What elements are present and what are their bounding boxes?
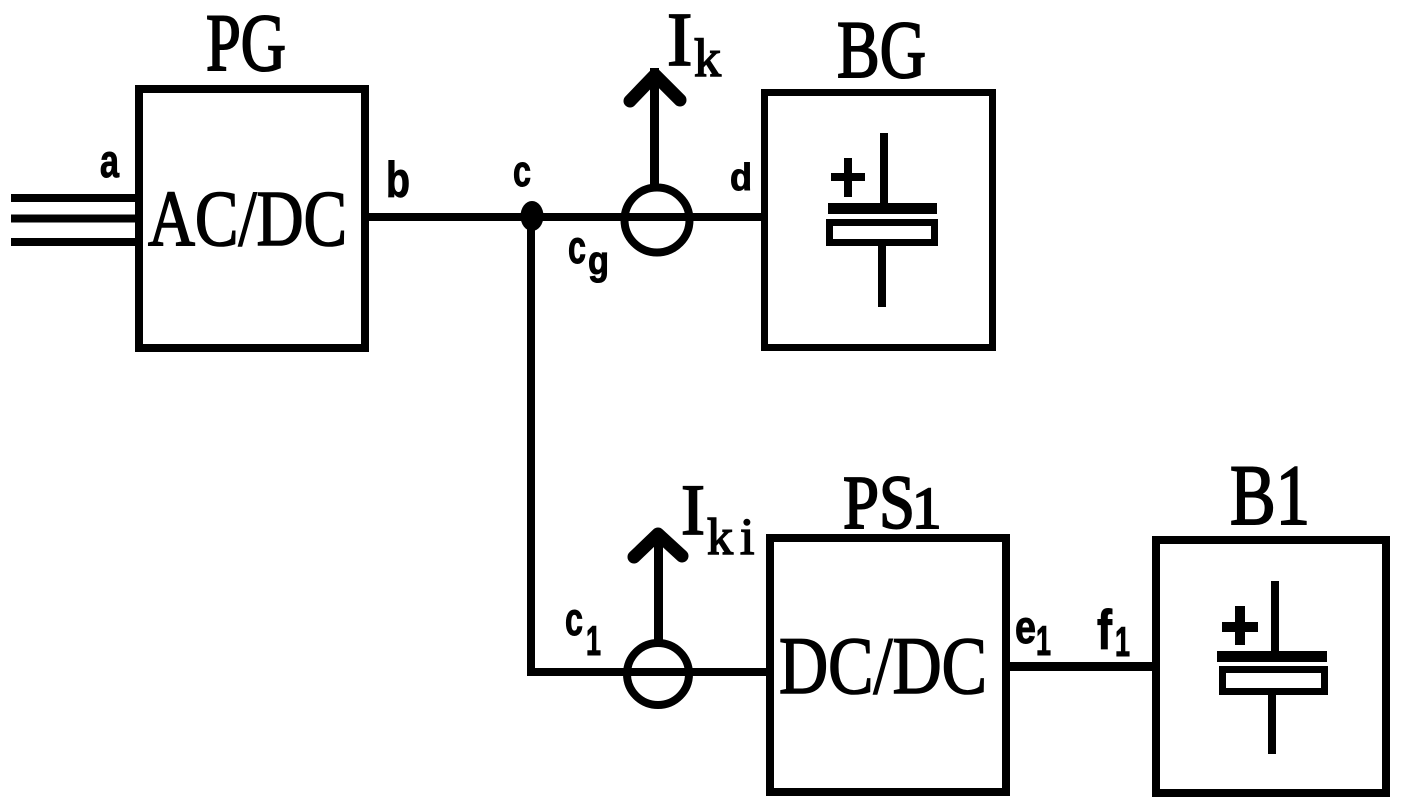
svg-text:DC/DC: DC/DC — [779, 620, 987, 711]
arrow Iki stem — [654, 530, 663, 643]
battery B1 positive plate — [1217, 651, 1327, 662]
svg-text:b: b — [386, 152, 410, 208]
svg-text:k: k — [707, 509, 733, 566]
svg-text:B1: B1 — [1230, 447, 1310, 543]
svg-text:a: a — [100, 135, 119, 187]
svg-text:e: e — [1015, 601, 1036, 653]
wire a: three-phase input line 3 — [11, 238, 135, 246]
battery B1 box — [1156, 540, 1386, 793]
svg-text:BG: BG — [837, 4, 926, 95]
battery BG plus sign — [831, 173, 865, 181]
battery B1 negative plate — [1223, 670, 1325, 692]
svg-text:PG: PG — [206, 0, 286, 88]
battery BG positive plate — [828, 203, 937, 214]
battery BG bottom lead — [878, 246, 886, 307]
svg-text:k: k — [694, 28, 721, 88]
svg-text:d: d — [730, 157, 752, 199]
svg-text:c: c — [568, 221, 586, 273]
node c junction dot — [521, 201, 544, 231]
converter PS1 box — [770, 538, 1006, 792]
wire: bottom horizontal from corner to PS1 — [527, 668, 766, 676]
arrow Ik head — [630, 75, 680, 101]
current sensor circle cg — [625, 188, 690, 253]
svg-text:f: f — [1097, 598, 1112, 661]
battery B1 plus sign — [1222, 622, 1258, 632]
svg-text:PS: PS — [843, 461, 915, 545]
current sensor circle c1 — [627, 643, 689, 705]
converter PG box — [139, 89, 365, 348]
svg-text:AC/DC: AC/DC — [148, 176, 347, 263]
wire b: PG to BG — [365, 213, 765, 221]
svg-text:1: 1 — [912, 475, 942, 541]
wire a: three-phase input line 2 — [11, 215, 135, 223]
svg-text:c: c — [513, 147, 531, 196]
battery BG box — [765, 93, 993, 348]
svg-text:i: i — [740, 509, 754, 566]
svg-text:1: 1 — [1036, 617, 1051, 664]
battery BG top lead — [880, 133, 888, 210]
arrow Iki head — [634, 534, 682, 557]
svg-text:I: I — [667, 0, 692, 82]
arrow Ik stem — [650, 68, 659, 186]
svg-text:I: I — [681, 470, 705, 550]
wire a: three-phase input line 1 — [11, 194, 135, 202]
wire: vertical from node c down — [527, 213, 535, 676]
svg-text:1: 1 — [1115, 618, 1130, 665]
svg-text:g: g — [588, 239, 609, 283]
svg-text:1: 1 — [586, 617, 601, 664]
battery BG negative plate — [830, 223, 935, 243]
battery B1 top lead — [1271, 581, 1279, 657]
wire: PS1 to B1 — [1006, 662, 1156, 671]
battery B1 bottom lead — [1268, 695, 1276, 754]
svg-text:c: c — [565, 593, 583, 645]
